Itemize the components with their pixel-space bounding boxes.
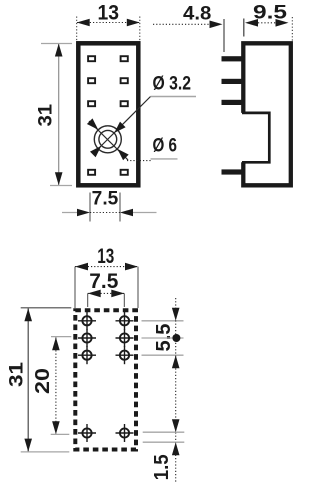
drill hole r2c2: [116, 329, 134, 347]
extension line 20 top: [51, 336, 71, 338]
dimension 1.5 top arrow: [172, 419, 180, 432]
contact slot row1 left: [88, 56, 95, 61]
dimension 13 plan right arrow: [125, 263, 138, 271]
extension line 4.8 right: [223, 19, 225, 52]
extension line row2 right: [142, 337, 184, 339]
extension line row1 right: [142, 320, 184, 322]
drill hole r2c1: [78, 329, 96, 347]
pin 3: [222, 100, 244, 105]
arrowhead at inner circle NE: [114, 122, 125, 133]
dimension 4.8 arrow: [210, 21, 223, 29]
drill hole r4c2: [116, 424, 134, 442]
dimension 31 plan bottom arrow: [24, 439, 32, 452]
dotted connector to Ø6 label: [127, 160, 151, 162]
dimension 7.5 dotted line: [90, 212, 120, 214]
dimension 7.5 left arrow: [77, 209, 90, 217]
svg-text:Ø 3.2: Ø 3.2: [153, 74, 192, 95]
pin 4: [222, 169, 244, 174]
dimension 5.5/1.5 dotted line: [175, 298, 177, 483]
contact slot row3 left: [88, 101, 95, 106]
arrowhead at outer circle SE: [117, 149, 128, 160]
extension line left of 7.5: [89, 193, 91, 222]
svg-text:7.5: 7.5: [89, 270, 118, 293]
side view notch: [242, 113, 269, 162]
front view body outline: [78, 43, 138, 185]
extension line 7.5 plan left: [87, 293, 89, 307]
dimension 20 top arrow: [52, 337, 60, 350]
centre hole outer circle (Ø6): [94, 126, 121, 153]
dimension 7.5 right arrow: [120, 209, 133, 217]
drill hole r3c2: [116, 346, 134, 364]
dimension 7.5 right leader: [131, 212, 157, 214]
extension line 20 bottom: [51, 433, 70, 435]
arrowhead at inner circle SW: [90, 146, 101, 157]
dimension 13 left arrow: [77, 19, 90, 27]
dimension 31 top arrow: [55, 44, 63, 57]
dimension 5.5 bottom arrow: [172, 355, 180, 368]
underline of Ø 3.2: [151, 96, 197, 98]
contact slot row4 left: [88, 170, 95, 175]
contact slot row2 left: [88, 78, 95, 83]
dimension 4.8 dotted line: [153, 23, 210, 25]
extension line 13 plan left: [74, 267, 76, 308]
dimension 7.5 plan right arrow: [111, 290, 124, 298]
extension line 9.5 left: [243, 19, 245, 37]
extension line right of 13: [139, 17, 141, 41]
contact slot row3 right: [121, 101, 128, 106]
svg-text:4.8: 4.8: [183, 4, 211, 25]
svg-text:13: 13: [98, 2, 120, 25]
extension line 9.5 right dotted: [291, 17, 293, 41]
extension line bottom of 31: [50, 185, 72, 187]
dimension 20 bottom arrow: [52, 421, 60, 434]
dimension 31 bottom arrow: [55, 172, 63, 185]
dimension 7.5 left leader: [62, 212, 79, 214]
dimension 1.5 bottom arrow: [172, 442, 180, 455]
svg-text:31: 31: [35, 103, 56, 126]
extension line 7.5 plan right: [123, 293, 125, 307]
leader line NE-SW through hole: [94, 97, 151, 154]
drill hole r1c2: [116, 312, 134, 330]
reference dot: [172, 334, 180, 342]
svg-text:7.5: 7.5: [92, 188, 119, 209]
extension line left of 13: [76, 17, 78, 41]
dimension 20 dotted line: [55, 338, 57, 435]
extension line 31 plan top: [21, 307, 72, 309]
drill hole r3c1: [78, 346, 96, 364]
pin 2: [222, 79, 244, 84]
leader line NW-SE through hole: [89, 121, 128, 160]
dimension 5.5 top arrow: [172, 308, 180, 321]
svg-text:31: 31: [6, 361, 27, 387]
pin 1: [222, 56, 244, 61]
dimension 9.5 right arrow: [276, 19, 289, 27]
contact slot row2 right: [121, 78, 128, 83]
dimension 9.5 left arrow: [245, 19, 258, 27]
dimension 31 line: [58, 44, 60, 186]
svg-text:9.5: 9.5: [253, 3, 288, 24]
extension line row3 right: [142, 354, 184, 356]
extension line 13 plan right: [137, 267, 139, 308]
extension line top of 31: [41, 43, 72, 45]
dimension 13 right arrow: [127, 19, 140, 27]
extension line 1.5 top: [143, 431, 185, 433]
side view main outline: [243, 43, 290, 185]
svg-text:Ø 6: Ø 6: [153, 136, 178, 157]
dimension 9.5 dotted line: [258, 22, 276, 24]
svg-text:13: 13: [97, 245, 114, 268]
svg-text:20: 20: [32, 368, 54, 394]
dimension 31 plan line: [27, 308, 29, 451]
dimension 7.5 plan left arrow: [88, 290, 101, 298]
contact slot row1 right: [121, 56, 128, 61]
drilling plan dashed outline: [75, 310, 136, 449]
centre hole inner circle (Ø3.2): [99, 130, 117, 148]
underline of Ø 6: [151, 158, 178, 160]
extension line right of 7.5: [119, 193, 121, 222]
dimension 13 plan dotted line: [75, 266, 138, 268]
drill hole r4c1: [78, 424, 96, 442]
dimension 13 line: [77, 22, 140, 24]
dimension 31 plan top arrow: [24, 308, 32, 321]
extension line 1.5 bottom: [143, 441, 185, 443]
contact slot row4 right: [121, 170, 128, 175]
extension line 31 plan bottom: [21, 451, 70, 453]
dimension 7.5 plan dotted line: [88, 292, 125, 294]
drill hole r1c1: [78, 312, 96, 330]
svg-text:1.5: 1.5: [151, 454, 173, 480]
dimension 13 plan left arrow: [75, 263, 88, 271]
arrowhead at outer circle NW: [87, 118, 98, 129]
